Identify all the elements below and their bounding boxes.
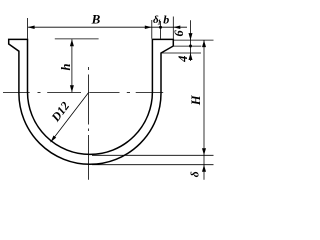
dot 6/4 boundary <box>189 45 192 48</box>
flange right edge extension line <box>172 17 174 39</box>
D12 arrow <box>51 136 57 143</box>
extension line flange-bottom level <box>174 45 202 47</box>
dot delta1/b boundary <box>159 26 162 29</box>
extension line rim-top level right <box>174 39 214 41</box>
D12 leader line <box>51 93 89 143</box>
extension line inner-bottom level <box>92 154 214 156</box>
arrow delta (up) <box>202 165 206 172</box>
horizontal center line <box>3 92 163 94</box>
arrow H top (up) <box>202 40 206 47</box>
svg-text:b: b <box>163 12 169 26</box>
arrow h top (up) <box>70 39 74 46</box>
arrow B right <box>145 25 152 29</box>
arrow H bottom (down) <box>202 148 206 155</box>
arrow 6 (down) <box>189 33 193 40</box>
svg-text:δ: δ <box>190 171 202 177</box>
dimension line 6/4 chain <box>190 20 192 61</box>
h top reference line <box>55 38 99 40</box>
dimension line delta bottom <box>203 155 205 179</box>
dimension line H <box>203 40 205 155</box>
svg-text:H: H <box>189 94 203 106</box>
svg-text:6: 6 <box>172 30 186 37</box>
svg-text:1: 1 <box>157 19 161 27</box>
vertical center line <box>88 67 90 180</box>
svg-text:B: B <box>91 11 101 26</box>
arrow 4 (up) <box>189 53 193 60</box>
svg-text:4: 4 <box>176 56 190 63</box>
arrow b right (pointing left) <box>173 25 180 29</box>
dimension line B / delta1 / b <box>28 26 187 28</box>
dimension B extension line left <box>27 18 29 39</box>
extension line wall-junction level <box>162 52 201 54</box>
crucible body outline <box>9 39 174 164</box>
arrow B left <box>28 25 35 29</box>
svg-text:h: h <box>59 63 73 70</box>
dimension line h <box>71 39 73 92</box>
extension line outer-bottom level <box>92 164 214 166</box>
extension line through dot <box>160 21 162 39</box>
dimension B extension line right <box>151 20 153 39</box>
arrow h bottom (down) <box>70 85 74 92</box>
